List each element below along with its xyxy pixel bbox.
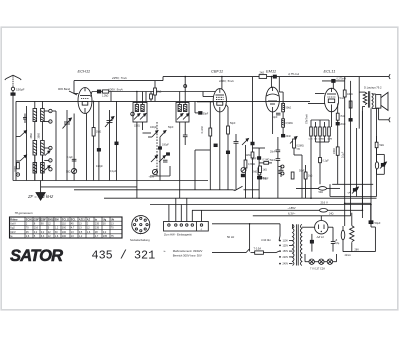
wire bus C drop x111 [110,92,112,102]
switch arrow S4 [45,166,50,170]
svg-text:5kΩ: 5kΩ [380,144,385,147]
svg-text:Ua/V: Ua/V [10,222,16,225]
wire mid-left vertical [26,106,28,181]
HT bus wire top [163,76,389,78]
wire EM right vertical [279,92,283,119]
capacitor blob on screen bus [97,90,100,93]
HT bus wire 235V [74,77,163,81]
oscillator wire v1 [66,110,68,181]
svg-text:20nF: 20nF [340,123,346,126]
IFT1 trimmer arrows [134,114,146,120]
switch arrow S3 [45,151,50,156]
oscillator wire v3 [86,114,88,181]
antenna trimmer C 150pF [11,87,14,93]
bus wire y186.9 [41,186,137,188]
resistor 1Mohm osc [92,128,101,137]
switch arrow S2 [16,155,27,161]
capacitor blob mid a [159,147,162,149]
svg-text:7,8µ: 7,8µ [335,242,340,245]
ECL11 cathode wire [331,112,333,127]
left frame wire [15,101,17,180]
tube ECH11 [78,88,92,114]
electrolytic oval right [341,226,345,252]
capacitor blob at ECL11 top [332,79,335,82]
variable capacitor C tune2 [105,117,114,128]
svg-text:150Ω: 150Ω [134,125,140,128]
svg-text:50kΩ: 50kΩ [286,107,292,110]
wire ECL11 top cap [322,81,345,89]
svg-text:500Ω: 500Ω [15,166,17,172]
svg-text:AZ11: AZ11 [79,218,86,221]
wire x236 [235,160,237,190]
tone network loop right [377,154,385,174]
wire IFT2 feed from HT bus [184,77,187,92]
svg-text:Ug2: Ug2 [10,227,15,230]
node circle mid [131,112,135,116]
labels resistor row [309,138,333,140]
svg-text:Meßinstrument: 333Ω/V: Meßinstrument: 333Ω/V [173,249,203,253]
wires EM11 to HT bus [271,77,279,92]
svg-text:100: 100 [62,231,67,234]
band switch contact W3 [49,146,52,150]
AVC bus wire y101 [16,100,310,102]
svg-text:110: 110 [62,222,67,225]
svg-text:U-90 Ωkt: U-90 Ωkt [261,239,271,242]
bus wire y210.3 [192,209,362,211]
bottom ground bus wire [13,180,208,182]
svg-text:1,2kΩ: 1,2kΩ [102,94,109,97]
wire x245 vertical [245,145,247,198]
capacitor 50pF at CBF11 [195,102,209,116]
svg-text:3560: 3560 [37,133,40,139]
oscillator wire v4 [93,101,95,180]
resistor det R3 [244,160,255,168]
wire CBF11 anode to bus [221,77,223,89]
svg-text:216: 216 [34,227,39,230]
wavechange contact circle left [16,173,19,176]
wires transformer taps [289,224,293,263]
svg-text:Ug: Ug [103,218,107,221]
wire right vertical to power area [371,108,377,222]
label 90% Band with pointer [58,87,77,95]
svg-text:2kΩ: 2kΩ [260,71,265,75]
coil L3 [41,109,45,122]
svg-text:SATOR: SATOR [10,247,63,265]
resistor zigzag right [350,213,354,252]
electrolytic cap plus8 [331,239,340,252]
potentiometer bottom mid [241,168,246,177]
wire ECH11 screen to bus [91,92,93,97]
capacitor blob on x350.6 [349,119,352,122]
heater bus wire y198.2 [104,197,377,199]
capacitor C7a plates [279,165,284,177]
resistor EM R1 50k [282,103,292,111]
svg-text:50µF: 50µF [263,177,269,180]
IF transformer 1 box [133,103,147,123]
svg-text:100V, 5mA: 100V, 5mA [219,79,234,83]
svg-text:100: 100 [62,235,67,238]
svg-text:0,1MΩ: 0,1MΩ [201,126,204,133]
resistor row under ECL11 r5 [328,127,331,136]
switch arrows mid cluster [148,131,166,138]
oscillator wire v2 [73,114,75,181]
capacitor 50nF blob left col [258,176,268,180]
bottom wire y251.6 [343,227,375,252]
output transformer core [368,91,369,107]
power transformer secondary winding [300,224,302,265]
svg-text:50pF: 50pF [203,113,209,116]
detector wire under CBF11 [219,112,221,190]
wires coil block [35,101,43,180]
tube socket diagram [131,216,150,236]
svg-text:0,1µF: 0,1µF [67,156,74,159]
bottom wire y184 [332,183,373,185]
mains wire upper [212,223,280,225]
band switch contact W1 [49,109,52,113]
pickup jack circle a [279,165,285,168]
selector tap labels [283,240,289,266]
svg-text:CBF11: CBF11 [211,69,223,74]
capacitor plates EM b [270,159,280,163]
svg-text:0,1µF: 0,1µF [110,170,117,173]
svg-text:216 V: 216 V [321,200,328,204]
band switch contact W2 [49,120,52,124]
svg-text:ECL: ECL [71,218,76,221]
svg-text:1kΩ: 1kΩ [308,175,313,178]
output transformer primary [363,92,367,105]
resistor on drop x151 [150,94,153,99]
wires coil row3 [35,155,43,181]
wire x210 vertical [209,102,211,190]
resistor det R2 [227,126,230,134]
fuse oval 24ohm on y210.3 [320,209,334,216]
svg-text:50pF: 50pF [230,122,236,125]
label Meszinstrument [173,249,203,258]
capacitor det blob1 [214,144,217,147]
wire drop x252.5 [253,77,260,199]
wire pickup horizontal [195,150,210,190]
svg-text:235V, 7mA: 235V, 7mA [111,76,127,80]
svg-text:⏚: ⏚ [200,227,202,231]
wires rectifier [302,216,333,242]
input coil L2 [33,141,37,156]
IFT1 secondary coil [141,105,144,112]
wire right vertical x344.7 [344,77,346,204]
fuse T 0,5A [254,246,280,254]
svg-text:6,3V~: 6,3V~ [288,212,296,216]
svg-text:150pF: 150pF [16,87,25,91]
capacitor C osc pad [67,156,77,161]
svg-text:Röhre: Röhre [10,218,18,221]
input coil L1 antenna winding [33,109,37,122]
svg-text:ECL11: ECL11 [62,218,70,221]
variable capacitor C tune1 [63,118,72,129]
speaker [376,92,388,110]
capacitor 20nF right of ECL11 [336,122,346,126]
wire volume to grid [294,148,302,198]
capacitor plates mid [163,160,168,162]
wire x160 vertical [159,137,161,181]
resistor 5k right top [375,136,384,154]
wire 7k chain [337,104,340,147]
oscillator wire v5 [98,101,100,180]
voltage selector vertical [279,224,281,236]
svg-text:0,3MΩ: 0,3MΩ [248,163,255,166]
resistor det R1 [201,126,212,136]
svg-text:78 gemessen: 78 gemessen [15,211,33,215]
svg-text:100pF: 100pF [162,144,169,147]
IFT2 primary coil [178,105,181,112]
svg-text:28V: 28V [355,249,360,252]
wires resistor row bottom [311,136,329,198]
bus wire y189.8 [74,189,233,191]
IFT2 secondary coil [184,105,187,112]
resistor oval in tone loop [375,162,378,169]
svg-text:90% Band: 90% Band [58,87,71,91]
mains switch on y189.8 [233,186,259,191]
EM11 lower wire [272,112,274,134]
trimmer cap left [23,114,27,124]
resistor 1kohm bottom mid [259,166,267,173]
svg-text:42mA: 42mA [345,254,352,257]
svg-text:EM11: EM11 [48,218,55,221]
capacitor 20nF EM blob [282,134,292,138]
svg-text:EM: EM [55,218,59,221]
wires band switch [44,111,56,181]
antenna series capacitor [11,93,15,95]
svg-text:24Ω: 24Ω [329,213,334,216]
selector contacts [279,236,281,265]
resistor row under ECL11 r3 [319,127,322,136]
ground symbol [36,181,45,201]
tone pot on y184 [348,187,359,195]
wire CBF11 grid lines [197,92,213,102]
svg-text:50Ω: 50Ω [319,191,324,194]
capacitor 100pF on x185 [183,135,188,145]
bus wire y215.8 [253,215,351,217]
wires IFT2 [180,92,186,199]
IF transformer 2 box [176,103,189,123]
svg-text:Zum HW - Einbaugerät: Zum HW - Einbaugerät [164,233,192,237]
resistor EM R2 0,5M [282,119,293,127]
switch arrow mid c [151,156,158,163]
svg-text:235: 235 [103,235,108,238]
wire stub mid b [150,166,170,176]
resistor box x292 [291,172,294,179]
wire left col vertical [259,148,265,198]
svg-text:10pF: 10pF [272,116,278,119]
resistor 2kohm inline on HT bus [259,71,267,79]
input coil L6 [41,163,45,174]
coil L4 [41,141,45,156]
svg-text:50pF: 50pF [168,126,174,129]
svg-text:70V/7mA: 70V/7mA [306,114,309,124]
svg-text:T 0,5A: T 0,5A [254,246,262,250]
wire stub mid a [143,132,152,134]
resistor 200ohm cathode [333,147,339,184]
wires dial lamps [305,254,337,262]
tube EM11 [266,87,280,112]
svg-text:235: 235 [95,222,100,225]
tube ECL11 [324,88,338,112]
svg-text:220V: 220V [283,256,289,259]
power transformer core [296,224,298,265]
wire right vertical x362.4 [361,111,363,210]
wire bus C drop x151 [150,92,152,102]
resistor 500ohm left [15,163,20,172]
wires IFT1 [137,92,143,199]
capacitor blob tone with arrow [380,162,387,169]
svg-text:AZ 11: AZ 11 [316,235,325,239]
svg-text:20nF: 20nF [270,150,276,153]
svg-text:435 / 321: 435 / 321 [92,249,156,263]
svg-text:1MΩ: 1MΩ [246,155,251,157]
capacitor 50uF bottom mid [258,176,269,180]
dial lamp 2 [319,259,324,264]
connector terminal top right [389,74,390,79]
svg-text:D.Lautspr.79.2: D.Lautspr.79.2 [364,85,382,89]
resistor box x305 [304,172,312,179]
svg-text:AZ: AZ [87,218,91,221]
svg-text:300: 300 [62,227,67,230]
resistor 0,1Mohm horizontal [259,160,272,165]
resistor 2kohm dropper x155 [154,81,162,102]
capacitor blob mid b [167,153,170,155]
potentiometer osc [66,168,77,173]
svg-text:10kΩ: 10kΩ [347,93,353,96]
wire x228 vertical [226,105,228,190]
input coil L5 [33,163,37,174]
measurement table [10,217,123,238]
switch arrow mid d [159,156,166,163]
svg-text:CBF: CBF [41,218,47,221]
svg-text:≈: ≈ [164,249,166,253]
svg-text:0,5MΩ: 0,5MΩ [286,122,293,125]
svg-text:235: 235 [95,227,100,230]
resistor 1Mohm x252.5 [246,152,254,158]
svg-text:2kΩ: 2kΩ [157,91,162,94]
pickup jack circle b [279,172,285,175]
svg-text:1kΩ: 1kΩ [263,168,268,171]
resistor 10kohm on x344.7 [343,90,353,97]
oscillator wire v6 [109,110,111,181]
capacitor blob power [310,234,313,252]
connector strip pins [168,224,203,231]
rectifier tube AZ11 [315,221,328,234]
resistor on x350.6 [349,101,352,108]
svg-text:240V: 240V [283,263,289,266]
band switch contact W4 [49,159,52,163]
dial lamp 3 [327,259,332,264]
svg-text:100V, 5mA: 100V, 5mA [108,88,123,92]
power transformer primary winding [293,224,295,265]
switch arrow S1 [16,131,27,137]
svg-text:0,1µF: 0,1µF [323,160,330,163]
wire y188.4 right [296,187,340,189]
oscillator wire v7 [116,101,118,180]
capacitor 50uF blob right [369,221,381,227]
svg-text:3562: 3562 [30,133,33,139]
bottom wire y196 [330,184,377,196]
capacitor 20nF blob x252.5 [251,142,254,145]
wires into ECL11 left [308,94,325,104]
wires output transformer primary [359,77,365,211]
svg-text:20nF: 20nF [286,135,292,138]
svg-text:125V: 125V [283,244,289,247]
mains switch link [249,224,251,252]
svg-text:7kΩ: 7kΩ [340,115,345,118]
band switch linkage dashed [156,122,158,176]
connector strip Zum HW [164,222,209,232]
svg-text:EM11: EM11 [266,69,276,74]
volume potentiometer [290,137,304,151]
svg-text:50µF: 50µF [375,221,381,225]
wires resistor row top [311,120,329,127]
mains wire lower [212,249,255,253]
pot with circle mid [149,169,158,178]
wire ECH11 anode to HT bus [74,81,78,94]
tube CBF11 [213,89,226,112]
antenna down wire [12,95,14,180]
capacitor blob on bus at EM11 [273,75,276,78]
capacitor blob osc v5 [97,149,100,152]
svg-text:Bereich 300V bzw. 30V: Bereich 300V bzw. 30V [173,253,202,257]
resistor row under ECL11 r4 [323,127,326,136]
svg-text:ZF = 452 kHz: ZF = 452 kHz [27,194,54,199]
capacitor 10pF EM [272,113,281,119]
junction dots buses [93,76,372,211]
connector terminal right mid [389,117,390,122]
table header text row [10,218,114,221]
svg-text:Sockelschaltung: Sockelschaltung [130,238,150,242]
wires speaker voice coil [372,93,389,120]
table row texts [10,222,114,238]
padder cap blob [115,142,118,145]
svg-text:50nF: 50nF [270,159,276,162]
wire EM mid vertical [277,137,279,198]
svg-text:100pF: 100pF [150,126,157,129]
wires right column verticals [345,203,371,226]
svg-text:~185V: ~185V [288,206,296,210]
wires connector strip risers [169,198,202,221]
svg-text:7 V 0,37 C2A: 7 V 0,37 C2A [310,267,325,270]
svg-text:ECH11: ECH11 [78,69,91,74]
capacitor 50nF box lower [299,165,307,198]
svg-text:Uk/V: Uk/V [10,231,16,234]
resistor 1Mohm left col [252,168,261,175]
fuse oval on y188.4 [319,187,327,194]
svg-text:0,1µF: 0,1µF [342,151,345,158]
antenna [5,75,21,87]
wire EM R2 down [282,127,284,137]
capacitor plates EM a [270,150,280,153]
IFT2 trimmer arrows [177,114,189,120]
wire right vertical x356.6 [356,128,358,197]
svg-text:110V: 110V [283,240,289,243]
svg-text:50 Hz: 50 Hz [227,235,235,239]
capacitor 0,1uF box [319,158,330,185]
bus wire y204.5 [150,204,371,206]
wire right vertical x350.6 [350,81,352,213]
svg-text:0,2M: 0,2M [328,138,333,140]
svg-text:0,1MΩ: 0,1MΩ [263,160,270,162]
wire bus C drop x146 [145,92,147,103]
capacitor 50nF left col [251,157,261,161]
IFT1 primary coil [135,105,138,112]
screen bus wire 100V [92,91,215,93]
svg-text:50Ω: 50Ω [66,171,71,174]
svg-text:150V: 150V [283,250,289,253]
